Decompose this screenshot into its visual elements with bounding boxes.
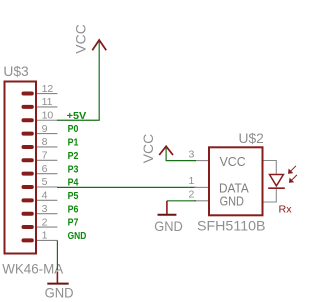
wire pin5 stub (33, 186, 57, 188)
wire DATA net (P4 to U$2 pin1) (57, 186, 196, 188)
wire pin1 stub (33, 239, 57, 241)
svg-text:P5: P5 (68, 190, 79, 202)
svg-text:P6: P6 (68, 203, 79, 215)
wire pin11 stub (33, 106, 57, 108)
pin 1 contact pad (22, 238, 34, 242)
svg-text:Rx: Rx (279, 204, 293, 216)
pin 10 contact pad (22, 118, 34, 122)
svg-text:VCC: VCC (140, 134, 156, 164)
svg-text:P0: P0 (68, 123, 79, 135)
pin 4 contact pad (22, 198, 34, 202)
pin 11 contact pad (22, 105, 34, 109)
svg-text:12: 12 (42, 83, 54, 95)
wire GND net at U$2: horizontal (167, 200, 196, 202)
svg-text:P3: P3 (68, 163, 79, 175)
wire pin7 stub (33, 159, 57, 161)
wire U$2 pin1 stub (194, 186, 209, 188)
pin 2 contact pad (22, 225, 34, 229)
wire pin12 stub (33, 93, 57, 95)
wire VCC net at U$2: vertical (165, 147, 167, 161)
ground symbol (connector) bar (47, 283, 68, 285)
ground symbol (U$2) stub (166, 201, 168, 215)
wire U$2 pin3 stub (194, 160, 209, 162)
svg-text:P2: P2 (68, 150, 79, 162)
wire pin3 stub (33, 213, 57, 215)
ground symbol (U$2) bar (158, 214, 177, 216)
svg-text:P7: P7 (68, 217, 79, 229)
pin 12 contact pad (22, 92, 34, 96)
svg-text:6: 6 (42, 163, 48, 175)
svg-text:2: 2 (188, 188, 194, 200)
svg-text:SFH5110B: SFH5110B (197, 218, 266, 234)
wire from U$2 VCC to diode anode (264, 161, 277, 175)
wire +5V net horizontal (57, 119, 100, 121)
wire U$2 pin2 stub (194, 200, 209, 202)
svg-text:U$2: U$2 (239, 130, 265, 146)
svg-text:P1: P1 (68, 137, 79, 149)
svg-text:10: 10 (42, 109, 54, 121)
photodiode incoming light arrow 1 (289, 166, 296, 173)
svg-text:WK46-MA: WK46-MA (2, 261, 64, 277)
pin 3 contact pad (22, 212, 34, 216)
connector U$3 body box (5, 82, 37, 254)
photodiode D1 cathode bar (268, 187, 285, 189)
svg-text:U$3: U$3 (3, 63, 29, 79)
wire pin8 stub (33, 146, 57, 148)
svg-text:VCC: VCC (220, 154, 246, 169)
pin 9 contact pad (22, 132, 34, 136)
svg-text:9: 9 (42, 123, 48, 135)
VCC supply symbol (top) arrow (92, 40, 106, 50)
svg-text:GND: GND (154, 218, 183, 234)
svg-text:3: 3 (42, 203, 48, 215)
wire pin10 stub (33, 119, 57, 121)
svg-text:1: 1 (188, 175, 194, 187)
svg-text:5: 5 (42, 176, 48, 188)
svg-text:VCC: VCC (72, 24, 88, 54)
svg-text:11: 11 (42, 96, 53, 108)
svg-text:1: 1 (42, 230, 48, 242)
wire pin4 stub (33, 199, 57, 201)
wire pin2 stub (33, 226, 57, 228)
wire from diode cathode to U$2 GND side (264, 188, 277, 202)
svg-text:8: 8 (42, 136, 48, 148)
photodiode D1 triangle (270, 175, 284, 186)
pin 6 contact pad (22, 172, 34, 176)
svg-text:4: 4 (42, 190, 48, 202)
wire pin6 stub (33, 173, 57, 175)
VCC supply symbol (U$2) arrow (159, 146, 173, 155)
wire GND net of connector: vertical drop (56, 240, 58, 270)
wire +5V net vertical (98, 41, 100, 121)
ground symbol (connector) stub (56, 272, 58, 284)
svg-text:GND: GND (45, 284, 74, 300)
IC U$2 body box (209, 147, 263, 215)
wire pin9 stub (33, 133, 57, 135)
svg-text:GND: GND (68, 230, 87, 242)
pin 7 contact pad (22, 158, 34, 162)
svg-text:3: 3 (188, 148, 194, 160)
svg-text:7: 7 (42, 150, 48, 162)
photodiode incoming light arrow 2 (290, 175, 297, 182)
svg-text:GND: GND (220, 194, 244, 209)
wire VCC net at U$2: horizontal (166, 160, 196, 162)
svg-text:2: 2 (42, 216, 48, 228)
pin 5 contact pad (22, 185, 34, 189)
pin 8 contact pad (22, 145, 34, 149)
